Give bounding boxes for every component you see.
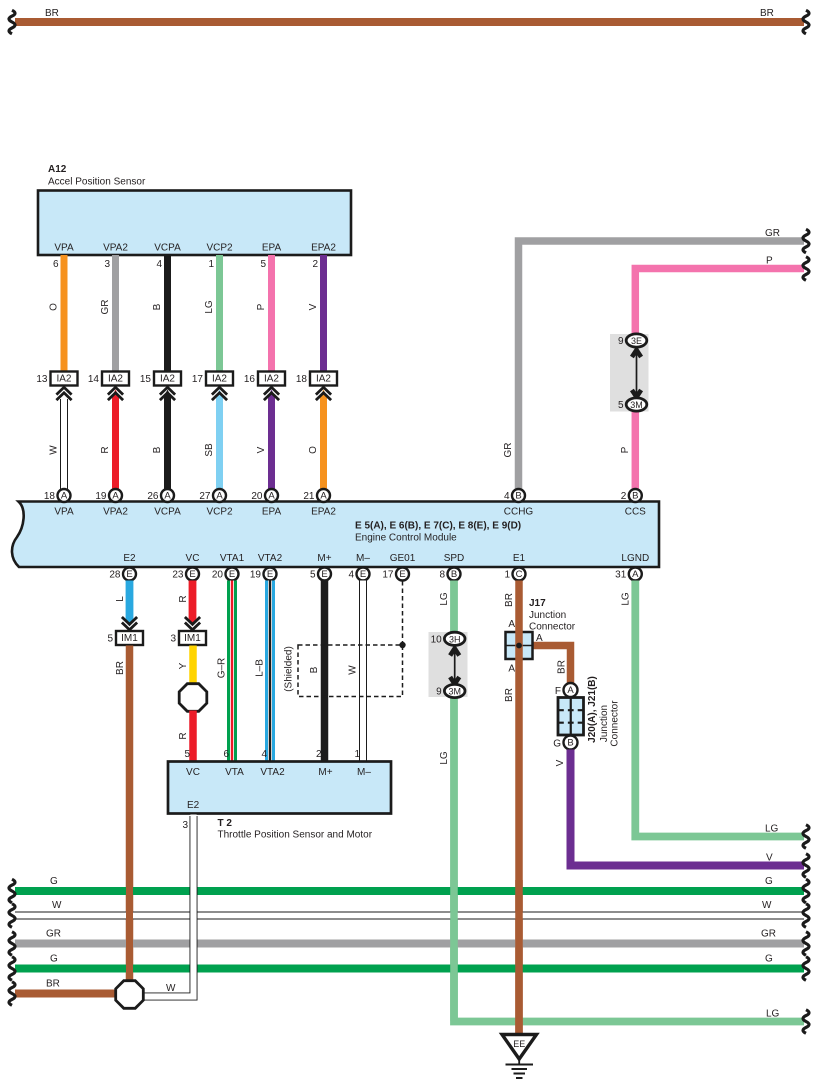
svg-text:6: 6 bbox=[223, 749, 229, 760]
svg-text:9: 9 bbox=[618, 336, 624, 347]
svg-text:Accel Position Sensor: Accel Position Sensor bbox=[48, 177, 146, 188]
junction octagon BR/W bbox=[116, 981, 144, 1009]
svg-text:L–B: L–B bbox=[255, 659, 266, 677]
svg-text:V: V bbox=[308, 303, 319, 310]
connector 3M pin 5 bbox=[626, 398, 647, 411]
svg-text:EPA2: EPA2 bbox=[311, 243, 336, 254]
connector IM1 pin 5 bbox=[116, 631, 143, 645]
wire break G2 left bbox=[9, 957, 15, 981]
connector 3M pin 9 bbox=[444, 684, 465, 697]
svg-text:E: E bbox=[360, 569, 366, 580]
svg-text:W: W bbox=[762, 900, 772, 911]
svg-text:GR: GR bbox=[503, 443, 514, 458]
svg-text:3M: 3M bbox=[448, 687, 461, 697]
svg-text:IM1: IM1 bbox=[184, 633, 201, 644]
svg-text:W: W bbox=[52, 900, 62, 911]
wire break top BR left bbox=[9, 10, 15, 34]
wire break W right bbox=[803, 904, 809, 928]
wire BR from IM1 to junction bbox=[126, 646, 134, 982]
wire LG from ECM SPD to harness bbox=[454, 581, 804, 1022]
svg-text:C: C bbox=[516, 569, 523, 580]
wire G bus 2 bbox=[15, 965, 804, 973]
svg-text:4: 4 bbox=[348, 570, 354, 581]
svg-text:VTA2: VTA2 bbox=[260, 767, 285, 778]
svg-text:A: A bbox=[320, 491, 327, 502]
svg-text:26: 26 bbox=[147, 491, 159, 502]
svg-text:BR: BR bbox=[504, 688, 515, 702]
svg-text:P: P bbox=[766, 256, 773, 267]
svg-text:EPA: EPA bbox=[262, 507, 282, 518]
svg-text:T 2: T 2 bbox=[218, 818, 233, 829]
wire P from harness to ECM CCS bbox=[635, 269, 804, 490]
wire BR bus to junction bbox=[15, 990, 118, 998]
svg-text:O: O bbox=[49, 303, 60, 311]
svg-text:VPA: VPA bbox=[54, 507, 74, 518]
svg-text:13: 13 bbox=[36, 374, 48, 385]
svg-text:M–: M– bbox=[356, 553, 370, 564]
svg-text:B: B bbox=[567, 738, 573, 749]
svg-text:2: 2 bbox=[621, 491, 627, 502]
wire V from IA2 to ECM EPA bbox=[268, 396, 275, 490]
svg-text:15: 15 bbox=[140, 374, 152, 385]
svg-text:A: A bbox=[632, 569, 639, 580]
svg-text:VPA: VPA bbox=[54, 243, 74, 254]
wire W from ECM M- to T2 M- bbox=[359, 581, 367, 762]
svg-text:V: V bbox=[256, 446, 267, 453]
svg-text:B: B bbox=[451, 569, 457, 580]
wire break top BR right bbox=[803, 10, 809, 34]
ECM pin 20(A) EPA bbox=[265, 489, 278, 502]
svg-text:4: 4 bbox=[156, 259, 162, 270]
connector arrows IA2 pin 13 bbox=[56, 387, 71, 394]
svg-text:IM1: IM1 bbox=[121, 633, 138, 644]
svg-text:E: E bbox=[229, 569, 235, 580]
junction connector J20(A), J21(B) pin F(A) bbox=[564, 683, 578, 697]
svg-text:F: F bbox=[555, 686, 561, 697]
svg-text:G: G bbox=[765, 954, 773, 965]
svg-text:20: 20 bbox=[212, 570, 224, 581]
svg-text:G: G bbox=[553, 739, 561, 750]
svg-text:V: V bbox=[555, 759, 566, 766]
wire LG from ECM LGND to harness bbox=[635, 581, 804, 837]
connector arrows IA2 pin 18 bbox=[316, 387, 331, 394]
svg-text:R: R bbox=[178, 732, 189, 739]
svg-text:E: E bbox=[126, 569, 132, 580]
svg-text:G: G bbox=[765, 876, 773, 887]
ECM pin 18(A) VPA bbox=[58, 489, 71, 502]
svg-text:A: A bbox=[508, 619, 515, 630]
connector 3H pin 10 bbox=[444, 632, 465, 645]
wire break G1 left bbox=[9, 879, 15, 903]
connector arrows IA2 pin 16 bbox=[264, 387, 279, 394]
connector IM1 pin 3 bbox=[179, 631, 206, 645]
shield junction dot bbox=[399, 642, 405, 648]
connector arrows IA2 pin 15 bbox=[160, 387, 175, 394]
svg-text:1: 1 bbox=[354, 749, 360, 760]
wire break GR right bbox=[803, 932, 809, 956]
svg-text:5: 5 bbox=[260, 259, 266, 270]
wire SB from IA2 to ECM VCP2 bbox=[216, 396, 223, 490]
wire R from splice to T2 VC bbox=[189, 711, 197, 762]
connector IA2 pin 13 bbox=[51, 372, 78, 386]
wire break G1 right bbox=[803, 879, 809, 903]
svg-text:VTA1: VTA1 bbox=[220, 553, 245, 564]
splice octagon on VC line bbox=[179, 684, 207, 712]
wire O from A12 VPA to IA2 bbox=[61, 255, 68, 372]
wire break P right bbox=[803, 257, 809, 281]
wire break GR left bbox=[9, 932, 15, 956]
svg-text:3H: 3H bbox=[449, 634, 461, 644]
sensor T2 Throttle Position Sensor and Motor bbox=[168, 762, 391, 814]
svg-text:E: E bbox=[399, 569, 405, 580]
junction connector J17 bbox=[506, 632, 533, 659]
wire break BR left bbox=[9, 982, 15, 1006]
wire W from T2 E2 pin 3 to junction bbox=[143, 816, 194, 997]
svg-text:B: B bbox=[152, 303, 163, 310]
wire O from IA2 to ECM EPA2 bbox=[320, 396, 327, 490]
svg-text:GE01: GE01 bbox=[390, 553, 416, 564]
wire B from IA2 to ECM VCPA bbox=[164, 396, 171, 490]
svg-text:B: B bbox=[515, 491, 521, 502]
connector IA2 pin 16 bbox=[258, 372, 285, 386]
svg-text:M–: M– bbox=[357, 767, 371, 778]
svg-text:E2: E2 bbox=[187, 800, 200, 811]
ECU E5-E9 Engine Control Module bbox=[12, 502, 659, 568]
wire G-R from ECM VTA1 to T2 VTA bbox=[227, 581, 237, 762]
svg-text:23: 23 bbox=[172, 570, 184, 581]
connector block 3H/3M bbox=[429, 632, 468, 697]
wire LG from A12 VCP2 to IA2 bbox=[216, 255, 223, 372]
svg-text:VCP2: VCP2 bbox=[206, 243, 233, 254]
svg-text:LG: LG bbox=[439, 751, 450, 765]
svg-text:VPA2: VPA2 bbox=[103, 243, 128, 254]
svg-text:E: E bbox=[267, 569, 273, 580]
svg-text:Y: Y bbox=[178, 662, 189, 669]
svg-text:19: 19 bbox=[250, 570, 262, 581]
wire break G2 right bbox=[803, 957, 809, 981]
svg-text:W: W bbox=[49, 445, 60, 455]
svg-text:GR: GR bbox=[765, 228, 780, 239]
svg-text:BR: BR bbox=[115, 661, 126, 675]
svg-text:W: W bbox=[166, 983, 176, 994]
svg-text:4: 4 bbox=[504, 491, 510, 502]
svg-text:EPA2: EPA2 bbox=[311, 507, 336, 518]
shield box (Shielded) bbox=[298, 645, 403, 697]
J17 junction dot bbox=[516, 643, 522, 649]
wire V from J20 to harness bbox=[571, 750, 805, 866]
wire BR from ECM E1 to ground EE bbox=[515, 581, 523, 1035]
wire break GR right bbox=[803, 229, 809, 253]
shield drain GE01 dashed lead bbox=[402, 581, 404, 645]
svg-text:EE: EE bbox=[513, 1039, 525, 1049]
connector arrows IA2 pin 17 bbox=[212, 387, 227, 394]
svg-text:A: A bbox=[61, 491, 68, 502]
svg-text:J20(A), J21(B): J20(A), J21(B) bbox=[587, 676, 598, 743]
svg-text:A: A bbox=[508, 664, 515, 675]
svg-text:E 5(A), E 6(B), E 7(C), E 8(E): E 5(A), E 6(B), E 7(C), E 8(E), E 9(D) bbox=[355, 521, 521, 532]
wire V from A12 EPA2 to IA2 bbox=[320, 255, 327, 372]
svg-text:2: 2 bbox=[316, 749, 322, 760]
svg-text:Junction: Junction bbox=[599, 705, 610, 742]
wire Y from IM1 to splice bbox=[189, 646, 197, 686]
wire R from ECM VC to IM1 bbox=[189, 581, 197, 619]
svg-text:W: W bbox=[348, 665, 359, 675]
wire break LG bottom right bbox=[803, 1010, 809, 1034]
svg-text:IA2: IA2 bbox=[56, 374, 71, 385]
ECM pin 27(A) VCP2 bbox=[213, 489, 226, 502]
svg-text:O: O bbox=[308, 446, 319, 454]
svg-text:VC: VC bbox=[186, 553, 200, 564]
svg-text:21: 21 bbox=[303, 491, 315, 502]
connector IA2 pin 15 bbox=[154, 372, 181, 386]
connector arrows IM1 pin 3 bbox=[185, 617, 200, 624]
svg-text:3E: 3E bbox=[631, 336, 642, 346]
wire L from ECM E2 to IM1 bbox=[126, 581, 134, 619]
svg-text:4: 4 bbox=[261, 749, 267, 760]
wire LG vertical over buses (SPD branch) bbox=[450, 880, 458, 1021]
wire BR branch from J17 to J20 bbox=[530, 646, 571, 684]
wire R from IA2 to ECM VPA2 bbox=[112, 396, 119, 490]
svg-text:BR: BR bbox=[46, 979, 60, 990]
svg-text:J17: J17 bbox=[529, 598, 546, 609]
svg-text:M+: M+ bbox=[318, 767, 332, 778]
svg-text:3: 3 bbox=[170, 634, 176, 645]
svg-text:G–R: G–R bbox=[217, 658, 228, 679]
svg-text:LG: LG bbox=[765, 824, 779, 835]
wire L-B from ECM VTA2 to T2 VTA2 bbox=[265, 581, 275, 762]
svg-text:B: B bbox=[152, 446, 163, 453]
svg-text:SPD: SPD bbox=[444, 553, 465, 564]
sensor A12 Accel Position Sensor bbox=[38, 191, 351, 256]
ECM pin 21(A) EPA2 bbox=[317, 489, 330, 502]
svg-text:3: 3 bbox=[104, 259, 110, 270]
svg-text:A: A bbox=[164, 491, 171, 502]
ECM pin 2(B) CCS bbox=[629, 489, 642, 502]
svg-text:B: B bbox=[309, 666, 320, 673]
svg-text:19: 19 bbox=[95, 491, 107, 502]
svg-text:16: 16 bbox=[244, 374, 256, 385]
svg-text:L: L bbox=[115, 596, 126, 602]
svg-text:Engine Control Module: Engine Control Module bbox=[355, 533, 457, 544]
svg-text:VTA2: VTA2 bbox=[258, 553, 283, 564]
wire G bus 1 bbox=[15, 887, 804, 895]
svg-text:10: 10 bbox=[431, 634, 443, 645]
svg-text:5: 5 bbox=[310, 570, 316, 581]
svg-text:3: 3 bbox=[182, 820, 188, 831]
wire break V right bbox=[803, 854, 809, 878]
svg-text:E2: E2 bbox=[123, 553, 136, 564]
svg-text:G: G bbox=[50, 876, 58, 887]
wire GR from A12 VPA2 to IA2 bbox=[112, 255, 119, 372]
svg-text:CCS: CCS bbox=[625, 507, 646, 518]
svg-text:IA2: IA2 bbox=[160, 374, 175, 385]
svg-text:14: 14 bbox=[88, 374, 100, 385]
svg-text:GR: GR bbox=[761, 929, 776, 940]
connector block 3E/3M bbox=[610, 334, 649, 412]
svg-text:1: 1 bbox=[504, 570, 510, 581]
svg-text:2: 2 bbox=[312, 259, 318, 270]
svg-text:V: V bbox=[766, 853, 773, 864]
svg-text:LG: LG bbox=[766, 1009, 780, 1020]
wire W bus bbox=[15, 912, 804, 920]
wire BR top bus bbox=[15, 18, 804, 26]
svg-text:IA2: IA2 bbox=[212, 374, 227, 385]
svg-text:VCPA: VCPA bbox=[154, 243, 181, 254]
svg-text:VCP2: VCP2 bbox=[206, 507, 233, 518]
svg-text:A12: A12 bbox=[48, 164, 67, 175]
svg-text:18: 18 bbox=[44, 491, 56, 502]
connector IA2 pin 18 bbox=[310, 372, 337, 386]
svg-text:18: 18 bbox=[296, 374, 308, 385]
ground EE bbox=[502, 1035, 537, 1060]
svg-text:17: 17 bbox=[192, 374, 204, 385]
wire B from ECM M+ to T2 M+ bbox=[321, 581, 329, 762]
ECM pin 19(A) VPA2 bbox=[109, 489, 122, 502]
svg-text:P: P bbox=[256, 303, 267, 310]
svg-text:IA2: IA2 bbox=[316, 374, 331, 385]
svg-text:LG: LG bbox=[204, 300, 215, 314]
svg-text:BR: BR bbox=[760, 8, 774, 19]
wire BR vertical over buses (E2/IM1 branch) bbox=[126, 880, 133, 982]
svg-text:A: A bbox=[567, 685, 574, 696]
svg-text:VPA2: VPA2 bbox=[103, 507, 128, 518]
svg-text:28: 28 bbox=[109, 570, 121, 581]
svg-text:G: G bbox=[50, 954, 58, 965]
wire B from A12 VCPA to IA2 bbox=[164, 255, 171, 372]
svg-text:P: P bbox=[620, 446, 631, 453]
svg-text:M+: M+ bbox=[317, 553, 331, 564]
svg-text:Throttle Position Sensor and M: Throttle Position Sensor and Motor bbox=[218, 830, 373, 841]
svg-text:Connector: Connector bbox=[529, 622, 576, 633]
svg-text:IA2: IA2 bbox=[264, 374, 279, 385]
connector IA2 pin 17 bbox=[206, 372, 233, 386]
svg-text:E1: E1 bbox=[513, 553, 526, 564]
svg-text:A: A bbox=[536, 633, 543, 644]
svg-text:Connector: Connector bbox=[610, 700, 621, 747]
svg-text:20: 20 bbox=[251, 491, 263, 502]
ECM pin 26(A) VCPA bbox=[161, 489, 174, 502]
svg-text:IA2: IA2 bbox=[108, 374, 123, 385]
svg-text:E: E bbox=[321, 569, 327, 580]
svg-text:31: 31 bbox=[615, 570, 627, 581]
svg-text:8: 8 bbox=[439, 570, 445, 581]
wire break W left bbox=[9, 904, 15, 928]
svg-text:BR: BR bbox=[557, 660, 568, 674]
svg-text:17: 17 bbox=[382, 570, 394, 581]
svg-text:27: 27 bbox=[199, 491, 211, 502]
svg-text:B: B bbox=[632, 491, 638, 502]
svg-text:9: 9 bbox=[436, 687, 442, 698]
svg-text:5: 5 bbox=[184, 749, 190, 760]
svg-text:LGND: LGND bbox=[621, 553, 649, 564]
svg-text:Junction: Junction bbox=[529, 610, 566, 621]
connector arrows IA2 pin 14 bbox=[108, 387, 123, 394]
svg-text:CCHG: CCHG bbox=[504, 507, 534, 518]
svg-text:VCPA: VCPA bbox=[154, 507, 181, 518]
svg-text:LG: LG bbox=[439, 592, 450, 606]
connector IA2 pin 14 bbox=[102, 372, 129, 386]
svg-text:VC: VC bbox=[186, 767, 200, 778]
svg-text:BR: BR bbox=[504, 593, 515, 607]
svg-text:SB: SB bbox=[204, 443, 215, 457]
svg-text:A: A bbox=[112, 491, 119, 502]
wire P from A12 EPA to IA2 bbox=[268, 255, 275, 372]
junction connector J20(A), J21(B) pin G(B) bbox=[564, 736, 578, 750]
connector arrows IM1 pin 5 bbox=[122, 617, 137, 624]
svg-text:GR: GR bbox=[100, 300, 111, 315]
wire BR vertical over buses (E1 branch) bbox=[515, 880, 523, 1035]
svg-text:5: 5 bbox=[618, 400, 624, 411]
wire W from IA2 to ECM VPA bbox=[60, 399, 68, 490]
wire GR from harness to ECM CCHG bbox=[519, 241, 805, 490]
svg-text:VTA: VTA bbox=[225, 767, 244, 778]
svg-text:BR: BR bbox=[45, 8, 59, 19]
svg-text:1: 1 bbox=[208, 259, 214, 270]
svg-text:A: A bbox=[268, 491, 275, 502]
svg-text:EPA: EPA bbox=[262, 243, 282, 254]
connector 3E pin 9 bbox=[626, 334, 647, 347]
svg-text:R: R bbox=[178, 595, 189, 602]
svg-text:R: R bbox=[100, 446, 111, 453]
svg-text:5: 5 bbox=[107, 634, 113, 645]
svg-text:6: 6 bbox=[53, 259, 59, 270]
svg-text:E: E bbox=[189, 569, 195, 580]
svg-text:LG: LG bbox=[620, 592, 631, 606]
svg-text:(Shielded): (Shielded) bbox=[284, 646, 295, 692]
wire break LG right bbox=[803, 825, 809, 849]
wire GR bus bbox=[15, 940, 804, 948]
svg-text:3M: 3M bbox=[630, 400, 643, 410]
junction connector J20(A), J21(B) body bbox=[558, 698, 584, 736]
svg-text:GR: GR bbox=[46, 929, 61, 940]
svg-text:A: A bbox=[216, 491, 223, 502]
ECM pin 4(B) CCHG bbox=[512, 489, 525, 502]
